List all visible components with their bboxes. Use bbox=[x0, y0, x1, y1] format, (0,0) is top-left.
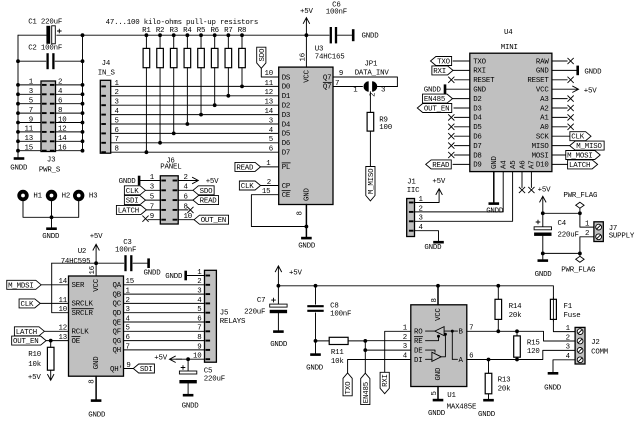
svg-text:D8: D8 bbox=[473, 152, 481, 160]
flag CLK U4 SCK bbox=[552, 135, 571, 137]
wire to J7 pin1 bbox=[580, 213, 594, 227]
wire J1 pin4 to ground bbox=[415, 231, 439, 241]
svg-text:SUPPLY: SUPPLY bbox=[609, 233, 635, 241]
svg-text:GND: GND bbox=[491, 156, 499, 169]
svg-text:READ: READ bbox=[432, 162, 450, 170]
wire C5 to ground bbox=[187, 383, 189, 394]
svg-text:MAX485E: MAX485E bbox=[447, 404, 477, 412]
svg-text:13: 13 bbox=[59, 334, 67, 342]
wire U2 QF to J5 pin 7 bbox=[124, 330, 205, 332]
op-amp U1 MAX485E body bbox=[411, 305, 467, 387]
svg-text:H1: H1 bbox=[33, 192, 42, 200]
pin U2 GND 8 bbox=[95, 376, 97, 399]
wire C7 to ground bbox=[277, 313, 279, 330]
svg-text:C7: C7 bbox=[257, 297, 265, 305]
svg-text:D10: D10 bbox=[536, 162, 549, 170]
svg-text:+5V: +5V bbox=[28, 374, 41, 382]
svg-text:F1: F1 bbox=[564, 303, 573, 311]
flag M_MISO U4 MISO bbox=[552, 145, 570, 147]
svg-text:3: 3 bbox=[197, 288, 201, 296]
flag CLK J6 pin3 bbox=[124, 186, 145, 195]
svg-text:GND: GND bbox=[435, 367, 443, 380]
svg-text:8: 8 bbox=[115, 146, 119, 154]
svg-text:11: 11 bbox=[265, 80, 274, 88]
no-connect J6 pin9 bbox=[142, 216, 148, 222]
wire J3 row 4 bbox=[18, 112, 41, 114]
wire J4 pin 6 to U3 bbox=[111, 132, 279, 134]
svg-text:DE: DE bbox=[414, 347, 423, 355]
svg-text:LATCH: LATCH bbox=[118, 207, 139, 215]
svg-text:3: 3 bbox=[29, 88, 33, 96]
svg-text:C4: C4 bbox=[558, 220, 567, 228]
svg-text:GND: GND bbox=[303, 188, 311, 201]
connector J5 RELAYS bbox=[205, 270, 217, 362]
svg-text:CLK: CLK bbox=[126, 188, 139, 196]
svg-text:+5V: +5V bbox=[90, 233, 103, 241]
svg-text:D4: D4 bbox=[282, 121, 291, 129]
svg-text:SDO: SDO bbox=[259, 48, 267, 61]
pin U3 VCC 16 bbox=[305, 35, 307, 67]
svg-text:8: 8 bbox=[296, 211, 304, 215]
svg-text:10k: 10k bbox=[331, 358, 344, 366]
svg-text:TXO: TXO bbox=[473, 58, 486, 66]
svg-text:GNDD: GNDD bbox=[428, 410, 446, 418]
wire J3 row 8 bbox=[18, 150, 41, 152]
svg-text:QF: QF bbox=[113, 329, 121, 337]
svg-text:6: 6 bbox=[115, 127, 119, 135]
pin U2 VCC 16 bbox=[95, 263, 97, 276]
svg-text:QH: QH bbox=[113, 347, 121, 355]
svg-text:7: 7 bbox=[197, 325, 201, 333]
svg-text:READ: READ bbox=[236, 164, 254, 172]
no-connect U4 A2 bbox=[552, 107, 567, 109]
svg-text:10: 10 bbox=[59, 306, 67, 314]
wire J4 pin 8 to U3 bbox=[111, 151, 279, 153]
svg-text:6: 6 bbox=[126, 334, 130, 342]
svg-text:IN_S: IN_S bbox=[98, 69, 116, 77]
svg-text:U1: U1 bbox=[447, 392, 456, 400]
wire J6 pin1 bbox=[140, 180, 160, 182]
svg-text:CLK: CLK bbox=[20, 301, 33, 309]
connector J7 SUPPLY bbox=[594, 222, 603, 242]
ground GNDD U2 bbox=[91, 399, 102, 402]
svg-text:2: 2 bbox=[197, 278, 201, 286]
svg-text:SDI: SDI bbox=[140, 366, 153, 374]
svg-text:QC: QC bbox=[113, 301, 122, 309]
svg-text:5: 5 bbox=[115, 117, 119, 125]
svg-text:QE: QE bbox=[113, 319, 122, 327]
svg-text:PWR_FLAG: PWR_FLAG bbox=[563, 192, 597, 200]
svg-text:QD: QD bbox=[113, 310, 122, 318]
svg-text:SRCLR: SRCLR bbox=[72, 310, 94, 318]
U1 internal B/A link bbox=[451, 331, 453, 359]
svg-text:6: 6 bbox=[197, 315, 201, 323]
no-connect U4 D4 bbox=[454, 116, 469, 118]
mounting hole H1 bbox=[19, 192, 27, 200]
wire J4 pin 4 to U3 bbox=[111, 114, 279, 116]
svg-text:1: 1 bbox=[585, 220, 590, 228]
power +5V U3 bbox=[303, 18, 310, 36]
svg-text:13: 13 bbox=[265, 99, 273, 107]
wire EN485 junction bbox=[364, 341, 366, 373]
wire U2 QA to J5 pin 2 bbox=[124, 284, 205, 286]
svg-text:R13: R13 bbox=[498, 376, 511, 384]
svg-text:J5: J5 bbox=[220, 310, 228, 318]
svg-text:3: 3 bbox=[115, 99, 119, 107]
wire J3 row 5 bbox=[18, 122, 41, 124]
svg-text:VCC: VCC bbox=[536, 87, 549, 95]
svg-text:100nF: 100nF bbox=[115, 246, 136, 254]
ground GNDD C3 bbox=[147, 258, 150, 268]
wire R2 top bbox=[159, 35, 161, 48]
wire R7 top bbox=[227, 35, 229, 48]
svg-text:H3: H3 bbox=[89, 192, 97, 200]
flag M_MDSI U2 SER bbox=[7, 280, 41, 289]
ground GNDD left rail bbox=[14, 157, 25, 160]
svg-text:DATA_INV: DATA_INV bbox=[355, 70, 390, 78]
svg-text:M_MOSI: M_MOSI bbox=[567, 153, 592, 161]
wire R1 bottom bbox=[145, 68, 147, 153]
wire SRCLR to +5V node bbox=[52, 263, 69, 313]
svg-text:+5V: +5V bbox=[584, 88, 597, 96]
wire U1 A to J2 pin3 bbox=[467, 350, 575, 359]
resistor R10 bbox=[50, 341, 52, 348]
svg-text:M_MDSI: M_MDSI bbox=[8, 282, 33, 290]
flag EN485 below U1 bbox=[361, 373, 370, 404]
ground GNDD U4 GND left bbox=[444, 84, 447, 94]
svg-text:+5V: +5V bbox=[538, 187, 551, 195]
svg-text:74HC165: 74HC165 bbox=[315, 53, 345, 61]
svg-text:J2: J2 bbox=[591, 339, 599, 347]
power PWR_FLAG top bbox=[579, 208, 581, 213]
svg-text:MINI: MINI bbox=[501, 44, 518, 52]
svg-text:D3: D3 bbox=[282, 112, 290, 120]
svg-text:16: 16 bbox=[58, 145, 66, 153]
flag SDI U2 bbox=[133, 364, 154, 373]
svg-text:GNDD: GNDD bbox=[535, 271, 553, 279]
svg-text:GND: GND bbox=[93, 356, 101, 369]
svg-text:D1: D1 bbox=[282, 93, 291, 101]
svg-text:+5V: +5V bbox=[289, 270, 302, 278]
svg-text:GND: GND bbox=[536, 68, 549, 76]
svg-text:+5V: +5V bbox=[206, 178, 219, 186]
svg-text:GNDD: GNDD bbox=[584, 68, 602, 76]
wire F1 to J2 pin1 bbox=[553, 319, 575, 331]
wire U2 QD to J5 pin 5 bbox=[124, 312, 205, 314]
svg-text:RXI: RXI bbox=[473, 68, 486, 76]
svg-text:OUT_EN: OUT_EN bbox=[201, 217, 226, 225]
ground GNDD J2 bbox=[548, 372, 559, 375]
svg-text:100nF: 100nF bbox=[326, 9, 347, 17]
svg-text:GNDD: GNDD bbox=[42, 233, 60, 241]
svg-text:20k: 20k bbox=[498, 385, 511, 393]
svg-text:GNDD: GNDD bbox=[424, 244, 442, 252]
svg-text:220uF: 220uF bbox=[558, 231, 579, 239]
svg-text:+5V: +5V bbox=[300, 8, 313, 16]
svg-text:13: 13 bbox=[25, 135, 33, 143]
connector J3 PWR_S bbox=[41, 81, 56, 152]
wire JP1 pin2 to R9 bbox=[369, 92, 371, 113]
wire R4 bottom bbox=[186, 68, 188, 124]
ground GNDD U4 bottom bbox=[489, 202, 500, 205]
svg-text:RCLK: RCLK bbox=[72, 329, 90, 337]
no-connect U4 A3 bbox=[552, 98, 567, 100]
flag RXI U4 bbox=[432, 66, 453, 75]
ground GNDD C4 bbox=[538, 259, 549, 262]
svg-text:SRCLK: SRCLK bbox=[72, 301, 94, 309]
power PWR_FLAG bottom bbox=[579, 253, 581, 256]
wire J4 pin 1 to U3 bbox=[111, 85, 279, 87]
ground GNDD holes bbox=[46, 227, 57, 230]
ground GNDD J5 pin1 bbox=[184, 271, 187, 281]
wire J3 row 7 bbox=[18, 140, 41, 142]
ground GNDD U4 GND right bbox=[552, 69, 577, 71]
wire U1 B to J2 pin2 bbox=[467, 331, 575, 341]
flag RXI below U1 bbox=[380, 372, 389, 393]
wire GND left rail bbox=[17, 35, 19, 157]
pin U3 GND 8 bbox=[305, 205, 307, 237]
wire R5 top bbox=[200, 35, 202, 48]
no-connect J6 pin8 bbox=[178, 209, 188, 211]
svg-text:7: 7 bbox=[126, 343, 130, 351]
wire U1 DI to TXO bbox=[348, 360, 411, 373]
flag EN485 U4 D2 bbox=[423, 94, 453, 103]
ground GNDD U3 bbox=[301, 237, 312, 240]
svg-text:GNDD: GNDD bbox=[88, 412, 106, 420]
wire U1 DE bbox=[365, 349, 411, 351]
wire U4 A4 to J1 pin2 bbox=[415, 172, 504, 212]
no-connect U4 RESET right bbox=[552, 79, 567, 81]
svg-text:CLK: CLK bbox=[241, 183, 254, 191]
svg-text:14: 14 bbox=[58, 135, 67, 143]
flag M_MISO below R9 bbox=[366, 167, 375, 201]
svg-text:5: 5 bbox=[431, 391, 439, 395]
flag LATCH J6 pin7 bbox=[116, 205, 146, 214]
svg-text:10: 10 bbox=[58, 116, 66, 124]
svg-text:220uF: 220uF bbox=[244, 309, 265, 317]
svg-text:C2 100nF: C2 100nF bbox=[28, 44, 62, 52]
svg-text:5: 5 bbox=[126, 325, 130, 333]
flag TXO U4 bbox=[431, 57, 452, 66]
ground GNDD C5 bbox=[183, 394, 194, 397]
ground GNDD J1 bbox=[433, 241, 444, 244]
svg-text:SDO: SDO bbox=[200, 188, 213, 196]
wire J3 row 2 bbox=[18, 93, 41, 95]
svg-text:2: 2 bbox=[115, 89, 119, 97]
svg-text:12: 12 bbox=[58, 126, 66, 134]
flag LATCH U2 RCLK bbox=[14, 327, 44, 336]
wire +5V rail to J7 bbox=[543, 212, 580, 214]
svg-text:J1: J1 bbox=[407, 179, 416, 187]
svg-text:RESET: RESET bbox=[527, 77, 549, 85]
svg-text:14: 14 bbox=[265, 108, 274, 116]
flag LATCH U4 D10 bbox=[552, 163, 571, 165]
wire U3 CE to ground bbox=[251, 195, 306, 227]
svg-text:TXO: TXO bbox=[437, 59, 450, 67]
wire R1 top bbox=[145, 35, 147, 48]
pin U1 GND 5 bbox=[437, 387, 439, 399]
svg-text:8: 8 bbox=[197, 334, 201, 342]
ground GNDD J6 pin1 bbox=[138, 176, 141, 186]
svg-text:SDI: SDI bbox=[126, 198, 139, 206]
svg-text:D2: D2 bbox=[282, 103, 290, 111]
svg-text:3: 3 bbox=[269, 117, 273, 125]
ground GNDD C6 bbox=[352, 29, 355, 41]
wire R9 to M_MISO bbox=[369, 131, 371, 166]
svg-text:DS: DS bbox=[282, 74, 291, 82]
ground GNDD R13 bbox=[483, 399, 494, 402]
wire SDO to U3 DS bbox=[261, 68, 278, 77]
pin U1 VCC 8 bbox=[437, 286, 439, 305]
svg-text:8: 8 bbox=[89, 380, 97, 384]
svg-text:GNDD: GNDD bbox=[298, 242, 316, 250]
svg-text:GNDD: GNDD bbox=[119, 178, 137, 186]
flag M_MOSI U4 MOSI bbox=[552, 154, 571, 156]
svg-text:A1: A1 bbox=[540, 115, 549, 123]
mounting hole H2 bbox=[48, 192, 56, 200]
svg-text:QA: QA bbox=[113, 282, 122, 290]
svg-text:C1 220uF: C1 220uF bbox=[28, 19, 62, 27]
no-connect U4 A6 bbox=[521, 172, 523, 188]
svg-text:C5: C5 bbox=[204, 368, 212, 376]
svg-text:74HC595: 74HC595 bbox=[61, 258, 91, 266]
svg-text:GNDD: GNDD bbox=[306, 364, 324, 372]
svg-text:PWR_FLAG: PWR_FLAG bbox=[561, 267, 595, 275]
svg-text:6: 6 bbox=[269, 146, 273, 154]
svg-text:J4: J4 bbox=[102, 60, 111, 68]
svg-text:8: 8 bbox=[431, 298, 439, 302]
wire R3 top bbox=[173, 35, 175, 48]
svg-text:DI: DI bbox=[414, 357, 422, 365]
svg-text:GNDD: GNDD bbox=[270, 341, 288, 349]
svg-text:LATCH: LATCH bbox=[569, 162, 590, 170]
svg-text:J3: J3 bbox=[47, 156, 55, 164]
svg-text:JP1: JP1 bbox=[365, 61, 378, 69]
wire R8 top bbox=[241, 35, 243, 48]
svg-text:OUT_EN: OUT_EN bbox=[424, 106, 449, 114]
power +5V J6 pin2 bbox=[178, 177, 198, 184]
U1 internal receiver bbox=[435, 327, 444, 336]
svg-text:D0: D0 bbox=[282, 84, 290, 92]
wire U4 A5 to J1 pin3 bbox=[415, 172, 513, 222]
no-connect U4 D6 bbox=[454, 135, 469, 137]
svg-text:47...100 kilo-ohms pull-up res: 47...100 kilo-ohms pull-up resistors bbox=[106, 19, 258, 27]
svg-text:2: 2 bbox=[267, 179, 271, 187]
svg-text:7: 7 bbox=[115, 136, 119, 144]
wire U1 RE bbox=[365, 340, 411, 342]
pin U4 GND bottom bbox=[493, 172, 495, 203]
svg-text:D3: D3 bbox=[473, 105, 481, 113]
no-connect U4 D8 bbox=[454, 154, 469, 156]
connector J2 COMM bbox=[575, 327, 585, 364]
wire U2 QH to J5 pin 9 bbox=[124, 349, 205, 351]
capacitor C4 bbox=[542, 213, 544, 227]
flag SDO J6 pin4 bbox=[178, 189, 193, 191]
no-connect U4 A1 bbox=[552, 116, 567, 118]
svg-text:R14: R14 bbox=[509, 303, 522, 311]
wire R3 bottom bbox=[173, 68, 175, 134]
svg-text:5: 5 bbox=[197, 306, 201, 314]
flag OUT_EN J6 pin10 bbox=[178, 219, 194, 221]
svg-text:GNDD: GNDD bbox=[544, 385, 562, 393]
resistor R15 bbox=[516, 331, 518, 336]
svg-text:12: 12 bbox=[265, 89, 273, 97]
svg-text:RXI: RXI bbox=[433, 68, 446, 76]
svg-text:100: 100 bbox=[379, 124, 392, 132]
svg-text:GNDD: GNDD bbox=[478, 411, 496, 419]
svg-text:D6: D6 bbox=[282, 140, 290, 148]
svg-text:RO: RO bbox=[414, 328, 423, 336]
flag READ U3 PE bbox=[235, 162, 261, 171]
svg-text:D9: D9 bbox=[473, 162, 481, 170]
svg-text:MOSI: MOSI bbox=[532, 152, 549, 160]
svg-text:10k: 10k bbox=[28, 361, 41, 369]
svg-text:Q7: Q7 bbox=[323, 84, 331, 92]
svg-text:11: 11 bbox=[25, 126, 34, 134]
wire R11 to RE/DE bbox=[348, 340, 365, 342]
wire J3 row 3 bbox=[18, 103, 41, 105]
svg-text:R11: R11 bbox=[331, 349, 344, 357]
svg-text:EN485: EN485 bbox=[363, 382, 371, 403]
svg-text:B: B bbox=[459, 328, 464, 336]
svg-text:PWR_S: PWR_S bbox=[39, 167, 61, 175]
wire +5V vertical rail bbox=[82, 35, 84, 151]
svg-text:GNDD: GNDD bbox=[424, 87, 442, 95]
wire U2 QE to J5 pin 6 bbox=[124, 321, 205, 323]
svg-text:9: 9 bbox=[29, 116, 33, 124]
flag READ U4 D9 bbox=[426, 160, 452, 169]
U1 DE wire bbox=[426, 350, 436, 352]
svg-text:GNDD: GNDD bbox=[144, 269, 162, 277]
svg-text:D7: D7 bbox=[473, 143, 481, 151]
svg-text:GNDD: GNDD bbox=[182, 402, 200, 410]
svg-text:U3: U3 bbox=[315, 46, 323, 54]
wire R8 bottom bbox=[241, 68, 243, 87]
svg-text:2: 2 bbox=[585, 230, 589, 238]
svg-text:8: 8 bbox=[58, 107, 62, 115]
svg-text:U4: U4 bbox=[504, 29, 513, 37]
svg-text:3: 3 bbox=[381, 86, 385, 94]
svg-text:D2: D2 bbox=[473, 96, 481, 104]
svg-text:EN485: EN485 bbox=[424, 96, 445, 104]
svg-text:GNDD: GNDD bbox=[165, 273, 183, 281]
wire J4 pin 7 to U3 bbox=[111, 142, 279, 144]
svg-text:D5: D5 bbox=[282, 131, 290, 139]
wire J4 pin 2 to U3 bbox=[111, 95, 279, 97]
svg-text:READ: READ bbox=[200, 198, 218, 206]
svg-text:VCC: VCC bbox=[435, 307, 443, 320]
no-connect U4 D5 bbox=[454, 126, 469, 128]
svg-text:7: 7 bbox=[29, 107, 33, 115]
svg-text:1: 1 bbox=[353, 86, 358, 94]
svg-text:A7: A7 bbox=[529, 161, 537, 169]
svg-text:A4: A4 bbox=[501, 160, 509, 169]
flag OUT_EN U4 D3 bbox=[417, 104, 451, 113]
wire R6 top bbox=[214, 35, 216, 48]
no-connect U4 RAW bbox=[552, 60, 567, 62]
svg-text:GNDD: GNDD bbox=[362, 33, 380, 41]
svg-text:R10: R10 bbox=[28, 351, 41, 359]
wire U2 QC to J5 pin 4 bbox=[124, 302, 205, 304]
no-connect U4 RESET left bbox=[454, 79, 469, 81]
ground GNDD C7 bbox=[273, 330, 284, 333]
svg-text:CE: CE bbox=[282, 192, 291, 200]
flag TXO below U1 bbox=[343, 373, 352, 396]
flag SDI J6 pin5 bbox=[124, 196, 145, 205]
svg-text:M_MISO: M_MISO bbox=[368, 168, 376, 194]
fuse F1 bbox=[550, 299, 556, 319]
svg-text:RELAYS: RELAYS bbox=[220, 318, 246, 326]
